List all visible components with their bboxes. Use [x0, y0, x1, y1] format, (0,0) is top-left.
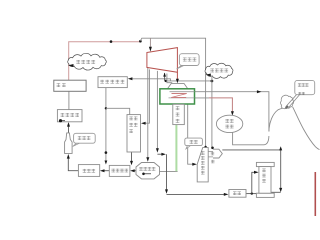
- condenser red element: [171, 94, 187, 98]
- label 轴封加热器(vert): [129, 117, 137, 134]
- wire condenser water return gray part: [169, 97, 210, 99]
- condenser tubes: [169, 92, 195, 98]
- wire boiler to HP heater: [68, 91, 70, 109]
- cloud industrial steam: [205, 63, 233, 78]
- wire to shaft gland heater top: [106, 108, 130, 114]
- wire turbine inlet: [149, 38, 151, 47]
- wire green condensate line: [175, 104, 177, 171]
- label 冷却塔: [298, 83, 309, 95]
- label 过热蒸汽: [76, 60, 95, 64]
- label 射汽抽气器(vert): [201, 151, 205, 174]
- label 汽封加热器: [100, 80, 124, 84]
- shaft gland heater box: [127, 115, 141, 152]
- wire octagon right to green line: [160, 171, 178, 173]
- oil cooler column bottom flange: [256, 193, 274, 197]
- wire shaft gland heater to LP heater: [131, 152, 133, 162]
- label 疏水: [190, 140, 198, 144]
- callout drain label: [186, 146, 191, 149]
- wire bottom long line to oil tank: [167, 193, 225, 195]
- label 油箱: [233, 192, 241, 196]
- oil cooler column body: [259, 167, 271, 194]
- label 冷油器(vert): [262, 169, 266, 183]
- node junction dot at steam line end: [139, 40, 142, 43]
- wire feed pump to HP heater: [68, 126, 70, 133]
- label 凝汽器(vert): [176, 106, 180, 122]
- wire turbine to condensate pump: [147, 68, 149, 158]
- turbine: [147, 48, 178, 73]
- callout feed pump: [73, 143, 80, 146]
- circulating pump ellipse: [216, 115, 242, 132]
- wire oil tank to column: [246, 193, 256, 195]
- callout turbine label: [177, 65, 184, 69]
- cloud superheated steam: [68, 53, 107, 70]
- wire long line to oil cooler column: [222, 150, 280, 189]
- gland steam heater box: [98, 77, 127, 88]
- cooling tower left flank: [269, 108, 283, 131]
- oil cooler column top flange: [256, 162, 274, 166]
- boiler box: [54, 80, 86, 91]
- cooling tower label box: [295, 80, 315, 94]
- wire deaerator to feed pump: [68, 159, 78, 171]
- HP heater box: [57, 110, 82, 122]
- turbine exhaust: [176, 72, 178, 79]
- node junction dot on steam line: [110, 40, 113, 43]
- wire drain down to bottom line: [166, 154, 168, 190]
- cloud1 arrow: [68, 64, 74, 67]
- wire red return to circulating pump: [209, 98, 232, 112]
- condenser green box: [160, 89, 195, 104]
- label 循环水泵(2x2): [225, 119, 233, 128]
- cooling tower label leaders: [286, 95, 300, 108]
- wire condenser drain to ejector: [188, 104, 193, 164]
- label 高压加热: [61, 113, 79, 117]
- LP heater box: [109, 165, 130, 176]
- wire industrial steam vertical to vent arrow: [211, 77, 213, 147]
- HP heater small pump dot: [59, 119, 62, 122]
- wire condenser cooling water out: [170, 92, 269, 132]
- condensate pump octagon: [136, 163, 160, 179]
- label 凝结水泵: [139, 167, 155, 171]
- cooling tower right flank: [293, 107, 320, 150]
- wire LP heater to deaerator: [104, 170, 109, 172]
- label 给水泵: [78, 136, 91, 140]
- cooling tower steam puff: [281, 95, 294, 109]
- label 工业用汽: [210, 69, 228, 73]
- label 除氧器: [83, 169, 95, 173]
- wire turbine to shaft gland heater right: [145, 69, 149, 123]
- ejector pentagon: [197, 148, 208, 182]
- oil tank box: [229, 190, 246, 198]
- cloud2 arrow: [206, 74, 211, 77]
- node dot at vent arrow top: [211, 147, 214, 150]
- condenser label box: [173, 104, 185, 124]
- node dot at ejector top: [204, 146, 206, 148]
- wire pump suction from tower base: [233, 132, 269, 144]
- label 低压加热: [111, 169, 128, 173]
- wire gland heater down line: [105, 88, 107, 162]
- condenser hood: [167, 83, 187, 88]
- wire turbine drain stubs: [164, 73, 166, 81]
- label 抽空(vert): [211, 152, 215, 163]
- wire turbine drain elbow down: [156, 71, 158, 149]
- red segment right edge: [314, 172, 316, 216]
- wire top line to industrial steam branch: [140, 38, 205, 147]
- wire main steam line (boiler to turbine, red): [69, 42, 141, 81]
- wire condensate pump to LP heater: [134, 170, 136, 172]
- feed pump shape: [65, 133, 73, 154]
- vent arrow shape: [213, 149, 222, 158]
- label 汽轮机: [183, 58, 196, 62]
- node dot on industrial steam line: [211, 80, 214, 83]
- label 锅 炉: [57, 83, 66, 87]
- wire gland steam line to heater: [132, 79, 171, 81]
- wire gland line from junction: [165, 80, 212, 82]
- node dot gland junction: [165, 80, 167, 82]
- deaerator box: [78, 165, 99, 177]
- condensate pump glyph: [142, 173, 145, 176]
- wire column right feed: [271, 191, 281, 193]
